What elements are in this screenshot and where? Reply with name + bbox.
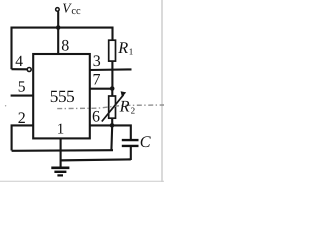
node pin6 junction: [110, 123, 115, 128]
wire capacitor bottom stem: [130, 147, 132, 160]
IC 555 timer body: [33, 54, 90, 138]
wire top rail with corners: [12, 28, 113, 70]
wire pin 4: [12, 68, 27, 70]
svg-text:6: 6: [92, 108, 100, 125]
capacitor C bottom plate: [122, 145, 139, 147]
svg-text:4: 4: [15, 53, 23, 70]
ground: [51, 167, 69, 170]
speck (scan noise): [5, 105, 6, 106]
svg-text:2: 2: [131, 106, 136, 116]
svg-text:1: 1: [57, 122, 65, 138]
resistor R1: [109, 40, 116, 61]
wire pin 7: [89, 88, 112, 90]
node Vcc junction: [56, 25, 61, 30]
wire pin 8: [57, 28, 59, 54]
svg-text:C: C: [140, 133, 151, 151]
svg-text:cc: cc: [71, 6, 81, 17]
svg-text:555: 555: [50, 87, 74, 106]
wire bottom rail A: [12, 149, 113, 152]
svg-text:1: 1: [129, 47, 134, 57]
svg-text:5: 5: [18, 78, 26, 95]
svg-text:3: 3: [93, 53, 101, 70]
terminal Vcc: [57, 12, 59, 28]
svg-text:R: R: [119, 97, 130, 116]
wire pin 6: [89, 124, 112, 126]
border bottom (faint): [0, 180, 164, 182]
wire bottom rail B: [61, 159, 131, 160]
capacitor C top plate: [122, 139, 139, 141]
svg-text:8: 8: [61, 38, 69, 55]
svg-text:R: R: [117, 38, 128, 57]
resistor R2 (variable): [111, 89, 113, 97]
wire pin 1 ground stem: [60, 138, 62, 167]
wire pin 5: [11, 95, 34, 97]
svg-text:2: 2: [18, 110, 26, 127]
wire pin 2: [12, 125, 34, 150]
svg-text:7: 7: [93, 71, 101, 88]
wire capacitor branch: [112, 125, 131, 139]
node pin7 junction: [110, 86, 115, 91]
R2 arrow: [102, 95, 124, 122]
wire pin 3 output: [89, 68, 131, 71]
dash-dot centre line: [57, 105, 164, 109]
pin 4 bubble: [27, 68, 31, 72]
wire R1 bottom: [111, 61, 113, 88]
border right (faint): [161, 0, 163, 182]
